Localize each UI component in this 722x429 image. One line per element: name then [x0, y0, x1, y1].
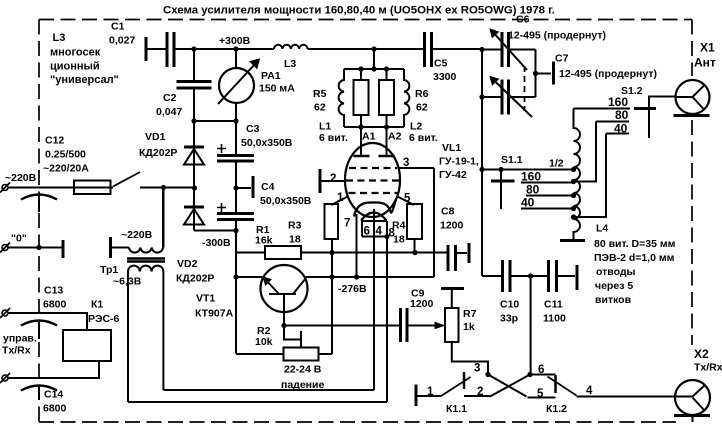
svg-text:33p: 33p — [500, 313, 518, 325]
svg-text:C1: C1 — [111, 21, 125, 33]
svg-text:Х2: Х2 — [694, 347, 709, 361]
pin 5 lead — [398, 197, 415, 206]
svg-text:C3: C3 — [246, 123, 260, 135]
svg-text:ГУ-19-1,: ГУ-19-1, — [439, 156, 479, 168]
svg-text:18: 18 — [393, 234, 405, 246]
terminal "0" — [2, 245, 8, 251]
svg-text:S1.1: S1.1 — [501, 154, 523, 166]
svg-text:Схема усилителя мощности 160,8: Схема усилителя мощности 160,80,40 м (UO… — [163, 5, 555, 17]
wire C10/C11 down to K1.2 — [530, 276, 532, 375]
svg-text:Тр1: Тр1 — [100, 264, 118, 276]
svg-text:R3: R3 — [288, 220, 302, 232]
svg-text:6 вит.: 6 вит. — [319, 132, 348, 144]
svg-text:40: 40 — [614, 122, 628, 136]
anode plates inside tube — [354, 155, 395, 158]
potentiometer R7 — [445, 308, 459, 342]
wire heater run lower — [128, 401, 387, 403]
svg-text:3300: 3300 — [433, 71, 457, 83]
svg-text:многосек: многосек — [50, 47, 101, 59]
wire pin3 riser to -276V — [433, 168, 435, 277]
svg-text:1200: 1200 — [410, 298, 434, 310]
svg-text:160: 160 — [608, 95, 628, 109]
wire -300V — [194, 230, 236, 232]
svg-text:VT1: VT1 — [196, 293, 215, 305]
transistor VT1 — [261, 265, 308, 312]
svg-text:L4: L4 — [596, 223, 608, 235]
svg-text:5: 5 — [537, 388, 544, 400]
input terminal bar (RF in) — [145, 37, 148, 61]
svg-text:Tx/Rx: Tx/Rx — [2, 345, 31, 357]
capacitor C2 — [193, 49, 195, 81]
capacitor C14 feedthrough — [21, 386, 57, 391]
chassis bar 0 — [62, 240, 65, 258]
svg-text:12-495 (продернут): 12-495 (продернут) — [559, 68, 657, 80]
resistor R2 — [284, 348, 319, 361]
variable capacitor C6 section 1 — [482, 49, 501, 51]
svg-text:А2: А2 — [388, 131, 402, 143]
capacitor C10 — [501, 260, 504, 292]
capacitor C11 — [547, 260, 550, 292]
pin 3 wire — [399, 167, 435, 169]
svg-text:ГУ-42: ГУ-42 — [439, 169, 467, 181]
connector X1 antenna — [676, 80, 710, 114]
svg-text:62: 62 — [314, 102, 326, 114]
wire R7 bottom to contact 3 — [452, 342, 488, 375]
relay contact K1.1 — [415, 385, 418, 407]
svg-text:+300В: +300В — [219, 35, 251, 47]
control terminal lower — [2, 375, 8, 381]
svg-text:2: 2 — [330, 173, 336, 185]
L4 chassis bar — [560, 239, 585, 242]
node R4 bottom — [412, 250, 417, 255]
S1.1 tap 40 — [521, 208, 574, 210]
svg-text:VD2: VD2 — [177, 258, 198, 270]
meter PA1 — [235, 49, 237, 68]
grid ground bar pin 2 — [319, 169, 322, 193]
node R3 bottom — [329, 250, 334, 255]
svg-text:4: 4 — [376, 226, 383, 238]
svg-text:КД202Р: КД202Р — [176, 273, 214, 285]
cathode — [354, 200, 396, 217]
svg-text:VD1: VD1 — [145, 131, 166, 143]
svg-text:0,047: 0,047 — [156, 106, 182, 118]
svg-text:-276В: -276В — [338, 283, 367, 295]
node anode rail — [371, 46, 376, 51]
svg-text:16k: 16k — [255, 235, 273, 247]
svg-text:К1: К1 — [91, 299, 103, 311]
svg-text:C8: C8 — [441, 206, 455, 218]
wire to relay coil bottom — [8, 361, 99, 378]
inductor L4 — [574, 109, 581, 241]
svg-text:C10: C10 — [500, 299, 519, 311]
svg-text:3: 3 — [474, 363, 480, 375]
inductor L3 — [274, 45, 308, 49]
svg-text:7: 7 — [344, 218, 350, 230]
svg-text:18: 18 — [289, 234, 301, 246]
C6 right rail — [535, 50, 537, 98]
C6 mechanical link dashed — [524, 66, 526, 111]
node C10/C11 — [528, 273, 533, 278]
svg-text:витков: витков — [595, 294, 632, 306]
svg-text:22-24 В: 22-24 В — [284, 364, 322, 376]
svg-text:R7: R7 — [463, 308, 477, 320]
svg-text:Х1: Х1 — [700, 41, 715, 55]
wire heater run upper — [163, 389, 374, 391]
svg-text:Tx/Rx: Tx/Rx — [694, 362, 722, 374]
svg-text:L3: L3 — [284, 58, 296, 70]
svg-text:1: 1 — [337, 192, 344, 204]
wire switch to rectifier — [140, 187, 194, 189]
svg-text:С13: С13 — [44, 285, 63, 297]
resistor R5 — [360, 69, 362, 80]
resistor R4 — [407, 204, 422, 239]
resistor R1 — [236, 252, 265, 254]
svg-text:6800: 6800 — [43, 403, 67, 415]
wire switch line down to transformer primary — [163, 188, 165, 248]
svg-text:R6: R6 — [415, 88, 429, 100]
svg-text:РЭС-6: РЭС-6 — [88, 313, 120, 325]
node +300V — [233, 46, 238, 51]
wire secondary left end down — [127, 272, 129, 403]
svg-text:через 5: через 5 — [595, 280, 633, 292]
svg-text:-300В: -300В — [202, 237, 231, 249]
capacitor C1 — [166, 32, 169, 67]
svg-text:PA1: PA1 — [261, 70, 281, 82]
anode leads A1 A2 — [360, 127, 362, 156]
node collector line R2 — [329, 274, 334, 279]
svg-text:отводы: отводы — [596, 266, 636, 278]
capacitor C5 — [423, 32, 426, 67]
annotation L3 multisection — [50, 32, 119, 86]
svg-text:~220/20А: ~220/20А — [43, 163, 89, 175]
transformer T1 primary winding — [129, 248, 163, 253]
svg-text:3: 3 — [403, 157, 409, 169]
svg-text:VL1: VL1 — [442, 142, 461, 154]
svg-text:6: 6 — [364, 226, 370, 238]
tube VL1 envelope — [345, 143, 400, 217]
svg-text:6800: 6800 — [43, 299, 67, 311]
riser tap to S1.2 40 — [574, 134, 607, 218]
svg-text:L2: L2 — [410, 121, 422, 133]
node VT1 base — [281, 323, 286, 328]
svg-text:C11: C11 — [544, 299, 563, 311]
svg-text:C7: C7 — [555, 53, 569, 65]
capacitor C7 to chassis — [536, 73, 552, 75]
pin 1 lead — [332, 197, 348, 206]
fuse — [74, 181, 111, 195]
svg-text:К1.1: К1.1 — [446, 403, 467, 415]
resistor R3 — [325, 204, 339, 239]
wire C2 to C3 rail — [194, 120, 236, 122]
relay contact K1.2 — [527, 372, 532, 377]
diode VD2 — [193, 188, 195, 207]
R7 chassis bar — [451, 290, 453, 308]
svg-text:80 вит. D=35 мм: 80 вит. D=35 мм — [594, 238, 676, 250]
svg-text:А1: А1 — [362, 131, 376, 143]
svg-text:160: 160 — [521, 170, 541, 184]
wire base to C9 — [284, 325, 400, 327]
svg-text:КД202Р: КД202Р — [139, 147, 177, 159]
svg-text:~220В: ~220В — [121, 229, 153, 241]
svg-text:5: 5 — [404, 193, 411, 205]
svg-text:C2: C2 — [163, 92, 177, 104]
anode network rails — [344, 68, 404, 70]
diode VD1 — [193, 121, 195, 147]
wire C10 feed — [482, 275, 501, 277]
switch S1.1 — [498, 167, 503, 172]
variable capacitor C6 section 2 — [482, 96, 501, 98]
svg-text:падение: падение — [281, 379, 324, 391]
svg-text:ПЭВ-2 d=1,0 мм: ПЭВ-2 d=1,0 мм — [594, 252, 675, 264]
tank rail down — [481, 50, 483, 277]
svg-text:1200: 1200 — [440, 220, 464, 232]
grid rows dashed — [349, 167, 397, 169]
svg-text:1/2: 1/2 — [549, 158, 564, 170]
svg-text:12-495 (продернут): 12-495 (продернут) — [508, 30, 606, 42]
svg-text:С14: С14 — [44, 389, 63, 401]
wire tank line to L4 — [482, 169, 574, 171]
node cathode pin7 — [354, 274, 359, 279]
svg-text:R4: R4 — [392, 220, 406, 232]
node VD junction — [192, 185, 197, 190]
relay K1 coil — [63, 330, 111, 361]
svg-text:50,0х350В: 50,0х350В — [260, 195, 312, 207]
svg-text:1: 1 — [427, 386, 434, 398]
mains terminal ~220V — [2, 185, 8, 191]
wire mains to fuse — [8, 187, 113, 189]
inductor L1 — [339, 69, 344, 127]
svg-text:1k: 1k — [463, 321, 475, 333]
wire secondary right end down — [162, 272, 164, 391]
svg-text:80: 80 — [526, 183, 540, 197]
svg-text:L3: L3 — [53, 32, 66, 44]
svg-text:КТ907А: КТ907А — [195, 308, 234, 320]
S1.2 tap 40 — [606, 133, 629, 135]
svg-text:6 вит.: 6 вит. — [409, 132, 438, 144]
svg-text:управ.: управ. — [3, 333, 37, 345]
svg-text:150 мА: 150 мА — [259, 83, 295, 95]
svg-text:"универсал": "универсал" — [50, 74, 119, 86]
capacitor C9 — [399, 308, 402, 342]
capacitor C13 feedthrough — [21, 321, 57, 326]
capacitor C8 — [447, 245, 450, 271]
wire 0 to chassis bar — [8, 247, 62, 249]
svg-text:50,0х350В: 50,0х350В — [241, 137, 293, 149]
svg-text:L1: L1 — [319, 121, 331, 133]
heater pins box 6 4 — [362, 221, 387, 237]
node C1/C2 junction — [191, 46, 196, 51]
S1.2 tap 160 — [574, 108, 631, 110]
S1.1 tap 80 — [526, 195, 574, 197]
riser tap to S1.2 80 — [574, 122, 597, 182]
svg-text:К1.2: К1.2 — [546, 403, 567, 415]
pin 7 cathode wire — [356, 214, 358, 277]
heater wires down — [373, 237, 375, 391]
svg-text:0.25/500: 0.25/500 — [45, 149, 86, 161]
wire primary right up — [162, 188, 164, 248]
chassis bar transformer primary — [109, 237, 112, 258]
svg-text:~220В: ~220В — [5, 172, 37, 184]
svg-text:"0": "0" — [11, 233, 27, 245]
svg-text:10k: 10k — [255, 336, 273, 348]
node doubler midpoint — [233, 185, 238, 190]
svg-text:40: 40 — [521, 196, 535, 210]
control terminal upper — [2, 310, 8, 316]
wire to relay coil top — [8, 313, 87, 330]
capacitor C3 electrolytic — [235, 121, 237, 155]
anode network stem — [373, 49, 375, 69]
transformer T1 core — [127, 259, 165, 262]
svg-text:0,027: 0,027 — [109, 35, 135, 47]
ground stub at C3/C4 midpoint — [236, 187, 251, 189]
connector X2 Tx/Rx — [675, 380, 710, 415]
capacitor C12 across mains (curved plate) — [21, 195, 57, 200]
inductor L2 — [404, 69, 409, 127]
svg-text:C6: C6 — [516, 14, 530, 26]
svg-text:С12: С12 — [45, 135, 64, 147]
svg-text:62: 62 — [416, 102, 428, 114]
wire top rail to L3 — [174, 48, 274, 50]
svg-text:C5: C5 — [434, 58, 448, 70]
svg-text:1100: 1100 — [543, 313, 566, 325]
wire top rail — [146, 48, 167, 50]
svg-text:4: 4 — [586, 385, 593, 397]
capacitor C4 electrolytic — [235, 188, 237, 213]
S1.1 tap 160 — [521, 182, 574, 184]
wire R2 right up to R3 — [331, 239, 333, 354]
wire L3 to C5 — [308, 48, 425, 50]
resistor R6 — [386, 69, 388, 80]
node C6 top — [479, 47, 484, 52]
S1.2 tap 80 — [596, 121, 629, 123]
svg-text:2: 2 — [477, 386, 483, 398]
svg-text:C4: C4 — [261, 181, 275, 193]
svg-text:R5: R5 — [313, 88, 327, 100]
svg-text:ционный: ционный — [50, 61, 100, 73]
transformer T1 secondary winding 6.3V — [128, 266, 163, 272]
svg-text:80: 80 — [615, 108, 629, 122]
wire base to R2 wiper — [284, 326, 301, 340]
svg-text:Ант: Ант — [694, 56, 716, 70]
switch blade — [113, 172, 140, 187]
wire primary left — [111, 247, 130, 249]
